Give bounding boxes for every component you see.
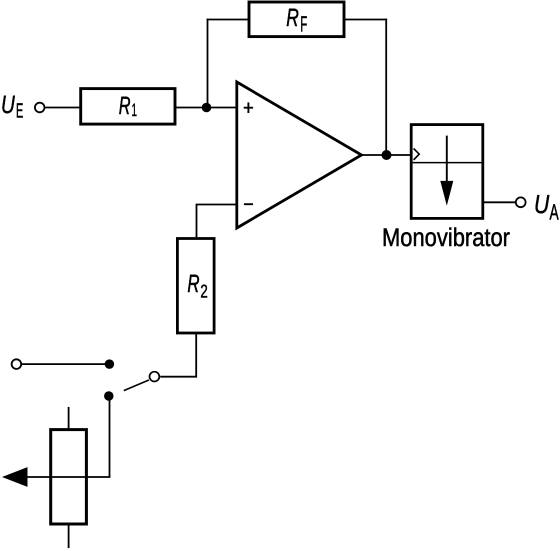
node UE label bbox=[1, 91, 23, 123]
svg-text:E: E bbox=[16, 100, 23, 123]
switch lever bbox=[124, 380, 149, 391]
arrowhead left bbox=[2, 467, 28, 487]
wire op-amp output bbox=[362, 154, 413, 156]
svg-text:R: R bbox=[187, 270, 199, 298]
terminal left open circle bbox=[12, 359, 22, 369]
wire R1 to op-amp + bbox=[175, 107, 236, 109]
wire UE to R1 bbox=[45, 107, 81, 109]
pot bottom stub bbox=[68, 524, 70, 548]
switch contact upper dot bbox=[105, 359, 115, 369]
wire left terminal to upper contact bbox=[22, 363, 110, 365]
pot top stub bbox=[68, 407, 70, 430]
svg-text:U: U bbox=[534, 189, 549, 219]
divider line bbox=[413, 162, 483, 164]
svg-text:A: A bbox=[550, 200, 559, 225]
op-amp U1 bbox=[237, 82, 362, 228]
trigger chevron bbox=[414, 149, 420, 160]
node junction at + input bbox=[202, 103, 212, 113]
svg-text:2: 2 bbox=[200, 280, 207, 301]
node UA label bbox=[534, 189, 559, 225]
svg-text:Monovibrator: Monovibrator bbox=[382, 224, 510, 252]
terminal UA bbox=[516, 197, 526, 207]
resistor R1 bbox=[81, 89, 175, 125]
svg-text:F: F bbox=[300, 12, 307, 37]
resistor R2 bbox=[177, 239, 214, 334]
plus sign bbox=[244, 107, 253, 109]
wire down to output node bbox=[385, 19, 387, 155]
resistor RF bbox=[249, 2, 344, 37]
svg-text:1: 1 bbox=[132, 100, 138, 120]
arrow inside bbox=[446, 136, 448, 183]
minus sign bbox=[244, 203, 253, 205]
wire R2 down to switch bbox=[160, 333, 196, 377]
node junction at output bbox=[382, 150, 392, 160]
wire node up to RF bbox=[207, 19, 209, 108]
svg-text:R: R bbox=[119, 92, 131, 120]
monovibrator box bbox=[411, 125, 483, 219]
svg-text:R: R bbox=[286, 4, 299, 32]
switch contact lower dot bbox=[104, 391, 114, 401]
wire to RF left bbox=[207, 19, 250, 21]
wire RF right bbox=[343, 19, 387, 21]
switch pole circle bbox=[150, 372, 160, 382]
wire minus input bbox=[197, 205, 237, 240]
potentiometer body bbox=[51, 430, 87, 524]
svg-text:U: U bbox=[1, 91, 16, 119]
terminal UE bbox=[35, 103, 45, 113]
wire monovibrator output bbox=[483, 201, 515, 203]
wire arrow line through potentiometer bbox=[20, 476, 110, 478]
wire lower contact down bbox=[109, 396, 111, 477]
